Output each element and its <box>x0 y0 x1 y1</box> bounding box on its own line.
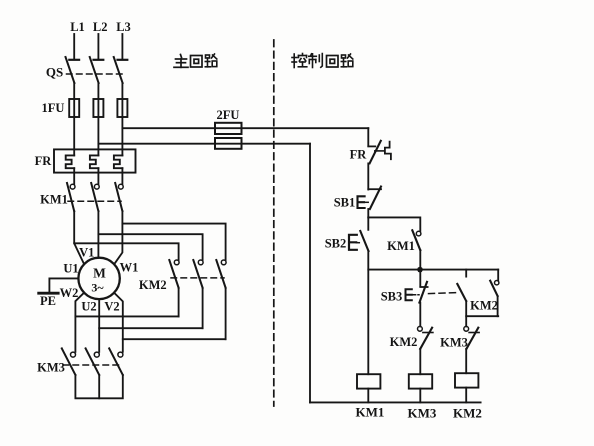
svg-text:KM1: KM1 <box>387 239 415 253</box>
wire phase2 down <box>97 211 99 258</box>
label main circuit (hand-drawn CJK) <box>174 55 188 68</box>
contactor contact KM2 interlock (NC) <box>390 326 433 349</box>
wire control top corner <box>367 128 369 146</box>
wire <box>465 316 467 326</box>
wire phase1 branch to KM2 <box>74 243 178 260</box>
svg-text:FR: FR <box>350 148 368 162</box>
svg-text:KM2: KM2 <box>139 278 167 292</box>
thermal contact FR (NC) <box>350 141 391 164</box>
wire <box>466 301 498 316</box>
wire <box>419 303 421 327</box>
svg-text:W2: W2 <box>60 286 79 300</box>
wire V2 lead <box>114 293 123 352</box>
svg-text:L2: L2 <box>93 20 108 34</box>
wire <box>465 349 467 373</box>
svg-text:KM2: KM2 <box>470 299 498 313</box>
wire KM2 c3 bottom <box>225 288 227 339</box>
svg-text:KM3: KM3 <box>37 361 65 375</box>
wire bottom rail <box>310 401 481 403</box>
contactor KM2 main contacts <box>139 260 226 292</box>
wire <box>367 209 369 217</box>
svg-text:KM2: KM2 <box>453 406 482 421</box>
wire <box>121 117 123 155</box>
contactor KM1 main contacts <box>40 183 123 211</box>
contactor contact KM1 aux (NO self-hold) <box>387 230 421 253</box>
wire KM2 c2 bottom <box>202 288 204 328</box>
wire <box>97 83 99 99</box>
coil KM2 <box>453 373 482 420</box>
svg-text:PE: PE <box>40 294 56 308</box>
wire <box>419 250 421 269</box>
svg-text:KM3: KM3 <box>408 406 437 421</box>
svg-text:U2: U2 <box>81 300 96 314</box>
divider dashed <box>273 40 275 406</box>
node L2 <box>93 20 108 60</box>
wire V2 to KM2 bottom <box>123 338 226 340</box>
svg-text:2FU: 2FU <box>217 108 240 122</box>
svg-text:V2: V2 <box>104 300 119 314</box>
coil KM1 <box>356 374 385 419</box>
wire phase3 down <box>114 211 122 264</box>
pushbutton SB1 (NC stop) <box>334 187 381 210</box>
svg-text:1FU: 1FU <box>42 101 65 115</box>
wire KM2 c1 bottom <box>178 288 180 317</box>
junction node <box>417 267 423 273</box>
wire U2 lead <box>75 293 84 352</box>
wire <box>121 168 123 184</box>
wire <box>367 251 369 374</box>
switch QS <box>46 57 123 83</box>
contactor contact KM2 aux (NO self-hold) <box>470 270 499 317</box>
wire U2 to KM2 bottom <box>75 315 178 317</box>
wire mid lead <box>98 299 100 352</box>
svg-text:3~: 3~ <box>91 281 104 295</box>
thermal relay FR heaters <box>35 149 136 172</box>
ground PE <box>39 278 79 307</box>
svg-text:V1: V1 <box>79 246 94 260</box>
svg-text:KM1: KM1 <box>40 193 68 207</box>
contactor KM3 star contacts <box>37 348 123 375</box>
svg-text:KM3: KM3 <box>440 336 468 350</box>
wire star mid <box>98 375 100 398</box>
wire <box>121 83 123 99</box>
fuse 2FU <box>215 108 242 149</box>
wire <box>419 349 421 374</box>
wire phase3 branch to KM2 <box>122 224 225 260</box>
node L1 <box>69 20 84 60</box>
pushbutton SB3 NO contact <box>457 270 466 301</box>
label control circuit (hand-drawn CJK) <box>292 54 307 68</box>
wire left control rail <box>309 144 311 403</box>
wire <box>73 168 75 184</box>
wire mid to KM2 bottom <box>99 327 202 329</box>
svg-text:L1: L1 <box>70 20 85 34</box>
coil KM3 <box>408 374 437 420</box>
motor M 3~ <box>78 258 119 299</box>
svg-text:SB3: SB3 <box>381 290 403 304</box>
contactor contact KM3 interlock (NC) <box>440 326 479 349</box>
svg-text:U1: U1 <box>63 262 78 276</box>
pushbutton SB2 (NO start) <box>325 217 369 251</box>
svg-text:FR: FR <box>35 154 53 168</box>
svg-text:W1: W1 <box>120 261 139 275</box>
wire <box>73 117 75 155</box>
wire rail A <box>368 269 498 271</box>
svg-text:M: M <box>93 266 106 281</box>
wire <box>73 83 75 99</box>
svg-text:KM2: KM2 <box>390 335 418 349</box>
wire <box>97 168 99 184</box>
svg-text:SB2: SB2 <box>325 237 347 251</box>
wire L2 to control rail <box>98 143 310 145</box>
wire L3 to control <box>122 127 368 129</box>
fuse 1FU <box>42 99 128 117</box>
wire <box>367 163 369 189</box>
svg-text:L3: L3 <box>116 20 131 34</box>
pushbutton SB3 (NC in star branch) <box>381 270 457 304</box>
wire branch to KM1 aux <box>368 217 420 231</box>
node L3 <box>116 20 131 60</box>
wire phase1 down <box>74 211 84 264</box>
wire <box>97 117 99 155</box>
svg-text:KM1: KM1 <box>356 405 385 420</box>
wire phase2 branch to KM2 <box>98 234 202 260</box>
wire star point <box>75 375 122 398</box>
svg-text:QS: QS <box>46 65 63 80</box>
svg-text:SB1: SB1 <box>334 196 356 210</box>
